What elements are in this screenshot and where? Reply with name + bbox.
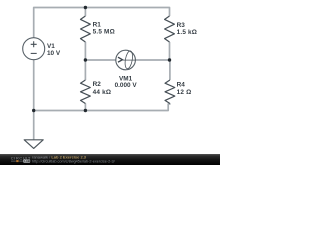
svg-text:44 kΩ: 44 kΩ bbox=[93, 89, 112, 96]
resistor R4 bbox=[165, 80, 191, 104]
svg-text:R4: R4 bbox=[177, 81, 186, 88]
node A junction (R1 top) bbox=[84, 6, 87, 9]
node E junction (ground tap) bbox=[32, 109, 35, 112]
wire middle left (node B to VM1) bbox=[85, 59, 116, 61]
node C junction (R3/R4/VM1) bbox=[168, 58, 171, 61]
wire ground lead bbox=[33, 111, 35, 140]
footer CircuitLab logo bbox=[11, 155, 31, 163]
wire R1 bottom lead to node B bbox=[84, 42, 86, 60]
svg-text:12 Ω: 12 Ω bbox=[177, 89, 192, 96]
wire R3 bottom lead bbox=[169, 42, 171, 60]
voltmeter VM1 bbox=[115, 50, 138, 89]
svg-text:5.5 MΩ: 5.5 MΩ bbox=[93, 29, 115, 36]
svg-text:1.5 kΩ: 1.5 kΩ bbox=[177, 29, 198, 36]
resistor R2 bbox=[81, 80, 112, 104]
wire top rail bbox=[34, 8, 170, 38]
wire middle right (VM1 to node C) bbox=[135, 59, 169, 61]
wire R1 top lead bbox=[84, 8, 86, 17]
voltage source V1 bbox=[23, 38, 61, 60]
node D junction (R2 bottom rail) bbox=[84, 109, 87, 112]
wire V1 bottom to ground rail bbox=[33, 60, 35, 111]
wire R2 top lead bbox=[84, 60, 86, 80]
resistor R1 bbox=[81, 16, 115, 42]
svg-text:LAB: LAB bbox=[24, 159, 30, 163]
svg-text:R2: R2 bbox=[93, 81, 102, 88]
node B junction (R1/R2/VM1) bbox=[84, 58, 87, 61]
wire R2 bottom lead bbox=[84, 103, 86, 110]
svg-text:http://circuitlab.com/c/8wg45e: http://circuitlab.com/c/8wg45e/lab-2-exe… bbox=[32, 159, 116, 163]
ground bbox=[24, 140, 43, 149]
svg-text:10 V: 10 V bbox=[47, 50, 61, 57]
resistor R3 bbox=[165, 16, 198, 42]
wire bottom rail bbox=[34, 103, 170, 110]
svg-text:0.000 V: 0.000 V bbox=[115, 82, 138, 89]
wire R4 top lead bbox=[169, 60, 171, 80]
